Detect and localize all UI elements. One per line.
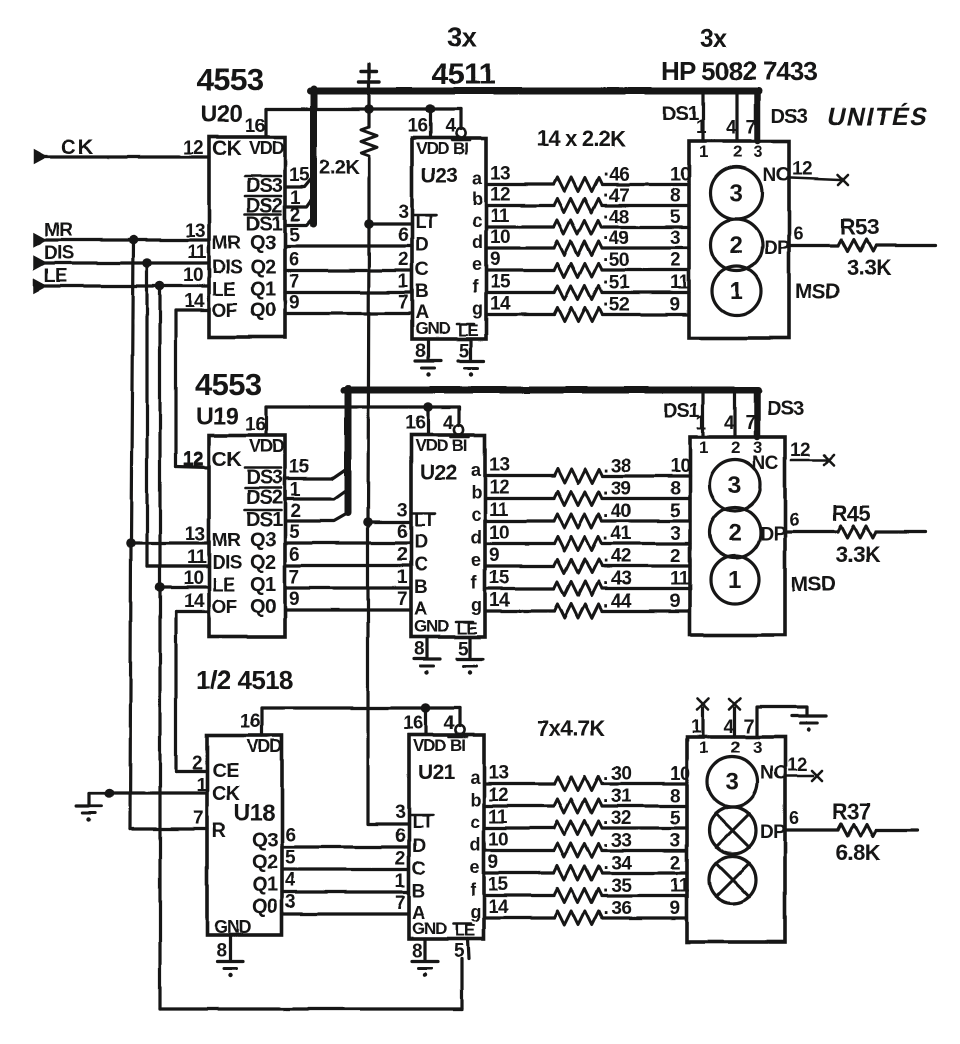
svg-text:9: 9 <box>488 852 498 873</box>
svg-text:U18: U18 <box>234 799 275 825</box>
svg-text:14: 14 <box>184 591 205 612</box>
svg-text:2: 2 <box>731 438 740 457</box>
svg-text:Q1: Q1 <box>250 574 276 596</box>
svg-text:6: 6 <box>793 224 803 244</box>
svg-text:c: c <box>470 812 480 832</box>
svg-text:g: g <box>470 902 480 922</box>
svg-text:4: 4 <box>443 413 454 434</box>
svg-text:13: 13 <box>489 455 509 476</box>
svg-text:10: 10 <box>488 830 508 851</box>
svg-text:5: 5 <box>670 501 681 522</box>
svg-text:15: 15 <box>489 568 510 589</box>
svg-text:g: g <box>471 595 481 615</box>
svg-text:16: 16 <box>245 414 265 435</box>
svg-text:1: 1 <box>395 871 406 892</box>
svg-text:7: 7 <box>746 117 756 138</box>
svg-text:R53: R53 <box>840 215 879 240</box>
svg-text:Q1: Q1 <box>252 874 278 896</box>
svg-text:5: 5 <box>285 848 296 869</box>
svg-text:6: 6 <box>397 522 407 543</box>
svg-text:11: 11 <box>187 242 207 263</box>
svg-text:e: e <box>471 550 481 570</box>
svg-text:16: 16 <box>405 413 425 434</box>
svg-text:10: 10 <box>183 265 203 286</box>
svg-text:HP 5082 7433: HP 5082 7433 <box>661 56 818 86</box>
svg-text:5: 5 <box>670 207 681 228</box>
svg-text:3: 3 <box>754 142 763 161</box>
svg-text:5: 5 <box>289 522 300 543</box>
svg-text:2.2K: 2.2K <box>319 157 360 179</box>
svg-text:9: 9 <box>670 898 680 919</box>
svg-text:3: 3 <box>728 472 741 499</box>
svg-text:GND: GND <box>214 917 252 937</box>
svg-text:Q3: Q3 <box>252 829 278 851</box>
svg-text:NC: NC <box>763 165 790 186</box>
svg-text:4: 4 <box>726 117 737 138</box>
svg-text:8: 8 <box>216 941 226 962</box>
svg-text:LE: LE <box>212 575 235 596</box>
svg-text:Q0: Q0 <box>250 300 276 322</box>
svg-text:7: 7 <box>398 293 408 314</box>
svg-text:D: D <box>414 532 427 553</box>
svg-text:2: 2 <box>670 546 680 567</box>
svg-text:6.8K: 6.8K <box>836 840 881 865</box>
svg-text:14 x 2.2K: 14 x 2.2K <box>537 126 626 151</box>
svg-text:f: f <box>471 573 478 593</box>
svg-text:7: 7 <box>744 717 754 738</box>
svg-text:1: 1 <box>397 567 408 588</box>
svg-text:Q3: Q3 <box>250 232 276 254</box>
svg-text:10: 10 <box>670 165 690 186</box>
svg-text:1: 1 <box>730 278 743 305</box>
svg-text:3.3K: 3.3K <box>836 542 881 567</box>
svg-text:3: 3 <box>753 738 762 757</box>
svg-text:·49: ·49 <box>603 228 629 249</box>
svg-text:2: 2 <box>290 501 300 522</box>
svg-text:NC: NC <box>752 453 779 474</box>
svg-text:13: 13 <box>490 164 510 185</box>
svg-text:1: 1 <box>696 413 707 434</box>
svg-text:4: 4 <box>724 717 735 738</box>
svg-text:4511: 4511 <box>432 58 495 91</box>
svg-text:6: 6 <box>398 225 408 246</box>
svg-text:. 38: . 38 <box>603 456 631 477</box>
svg-text:9: 9 <box>490 249 500 270</box>
svg-text:2: 2 <box>731 738 740 757</box>
svg-text:5: 5 <box>670 808 681 829</box>
svg-text:15: 15 <box>488 875 509 896</box>
svg-text:10: 10 <box>489 523 509 544</box>
svg-text:MR: MR <box>212 530 241 551</box>
svg-text:a: a <box>470 768 481 788</box>
svg-text:D: D <box>412 836 425 857</box>
svg-text:. 42: . 42 <box>603 546 631 567</box>
svg-text:11: 11 <box>670 569 690 590</box>
svg-text:4: 4 <box>285 870 296 891</box>
svg-text:LE: LE <box>44 266 67 287</box>
svg-text:. 41: . 41 <box>603 524 632 545</box>
svg-text:6: 6 <box>285 825 295 846</box>
svg-text:1: 1 <box>696 117 707 138</box>
svg-text:12: 12 <box>490 185 510 206</box>
svg-text:CE: CE <box>212 760 239 782</box>
svg-text:BI: BI <box>450 736 465 755</box>
svg-text:Q2: Q2 <box>252 852 278 874</box>
svg-text:11: 11 <box>670 273 690 294</box>
svg-text:9: 9 <box>670 591 680 612</box>
svg-text:CK: CK <box>212 448 242 471</box>
svg-text:3: 3 <box>398 202 408 223</box>
svg-text:U22: U22 <box>420 461 457 484</box>
svg-text:12: 12 <box>790 440 810 461</box>
svg-text:2: 2 <box>733 142 742 161</box>
svg-text:Q0: Q0 <box>252 896 278 918</box>
svg-text:DP: DP <box>760 822 786 843</box>
svg-text:2: 2 <box>730 232 743 259</box>
svg-text:4553: 4553 <box>197 62 264 97</box>
svg-text:VDD: VDD <box>249 436 285 456</box>
svg-text:Q3: Q3 <box>250 529 276 551</box>
svg-text:4: 4 <box>445 116 456 137</box>
svg-text:B: B <box>414 577 427 598</box>
svg-text:2: 2 <box>398 250 408 271</box>
svg-text:7: 7 <box>193 808 203 829</box>
svg-text:7x4.7K: 7x4.7K <box>537 716 605 741</box>
svg-text:7: 7 <box>397 589 407 610</box>
svg-text:b: b <box>471 483 482 503</box>
svg-text:5: 5 <box>289 225 300 246</box>
svg-text:c: c <box>472 211 482 231</box>
svg-text:8: 8 <box>670 479 680 500</box>
svg-text:DP: DP <box>764 238 790 259</box>
svg-text:DS3: DS3 <box>771 106 808 128</box>
svg-text:16: 16 <box>407 116 427 137</box>
svg-text:5: 5 <box>458 639 469 660</box>
svg-text:GND: GND <box>412 919 447 938</box>
svg-text:2: 2 <box>395 849 405 870</box>
svg-text:10: 10 <box>183 568 203 589</box>
svg-text:OF: OF <box>212 301 237 322</box>
svg-text:DS3: DS3 <box>246 467 283 489</box>
svg-text:4: 4 <box>724 413 735 434</box>
svg-text:DS1: DS1 <box>662 103 699 125</box>
svg-text:11: 11 <box>187 547 207 568</box>
svg-text:3.3K: 3.3K <box>847 256 892 281</box>
svg-text:1: 1 <box>699 438 708 457</box>
svg-text:·47: ·47 <box>603 186 629 207</box>
svg-text:11: 11 <box>489 500 509 521</box>
svg-text:BI: BI <box>453 139 468 158</box>
svg-text:8: 8 <box>415 341 425 362</box>
svg-text:. 31: . 31 <box>603 786 632 807</box>
svg-text:B: B <box>415 282 428 303</box>
svg-text:·50: ·50 <box>603 250 629 271</box>
svg-text:1: 1 <box>691 717 702 738</box>
svg-text:3: 3 <box>670 831 680 852</box>
svg-text:a: a <box>471 460 482 480</box>
svg-text:7: 7 <box>289 567 299 588</box>
svg-text:DS1: DS1 <box>663 400 700 422</box>
svg-text:a: a <box>472 169 483 189</box>
svg-text:. 32: . 32 <box>603 808 631 829</box>
svg-text:NC: NC <box>760 763 787 784</box>
svg-text:. 35: . 35 <box>603 876 632 897</box>
svg-text:12: 12 <box>488 785 508 806</box>
svg-text:f: f <box>472 277 479 297</box>
svg-text:. 34: . 34 <box>603 853 632 874</box>
svg-text:. 33: . 33 <box>603 831 631 852</box>
svg-text:8: 8 <box>670 786 680 807</box>
svg-text:e: e <box>470 857 480 877</box>
svg-text:4553: 4553 <box>195 367 262 402</box>
svg-text:3x: 3x <box>700 25 727 53</box>
svg-text:Q0: Q0 <box>250 596 276 618</box>
svg-text:VDD: VDD <box>415 436 448 455</box>
svg-text:DS2: DS2 <box>246 487 283 509</box>
svg-text:15: 15 <box>289 457 310 478</box>
svg-text:LE: LE <box>212 280 235 301</box>
svg-text:. 40: . 40 <box>603 501 631 522</box>
svg-text:. 30: . 30 <box>603 764 631 785</box>
svg-text:9: 9 <box>289 293 299 314</box>
svg-text:7: 7 <box>395 893 405 914</box>
svg-text:C: C <box>412 859 426 880</box>
svg-text:C: C <box>415 260 429 281</box>
svg-text:f: f <box>470 880 477 900</box>
svg-text:DIS: DIS <box>44 243 74 264</box>
svg-text:12: 12 <box>792 159 812 180</box>
svg-text:8: 8 <box>412 941 422 962</box>
svg-text:VDD: VDD <box>247 736 283 756</box>
svg-text:DS1: DS1 <box>246 509 283 531</box>
svg-text:4: 4 <box>444 713 455 734</box>
svg-text:DIS: DIS <box>212 258 242 279</box>
svg-text:9: 9 <box>489 545 499 566</box>
svg-text:MR: MR <box>212 233 241 254</box>
svg-text:15: 15 <box>490 272 511 293</box>
svg-text:13: 13 <box>185 221 205 242</box>
svg-text:d: d <box>472 232 482 252</box>
svg-text:Q1: Q1 <box>250 279 276 301</box>
svg-text:MR: MR <box>44 220 73 241</box>
svg-text:DS3: DS3 <box>767 398 804 420</box>
svg-text:U23: U23 <box>421 164 458 187</box>
svg-text:2: 2 <box>670 853 680 874</box>
svg-text:5: 5 <box>459 341 470 362</box>
svg-text:3: 3 <box>395 802 405 823</box>
svg-text:VDD: VDD <box>249 138 285 158</box>
svg-text:B: B <box>412 881 425 902</box>
svg-text:3: 3 <box>726 769 739 796</box>
svg-text:2: 2 <box>192 753 202 774</box>
svg-text:6: 6 <box>789 808 799 828</box>
svg-text:3: 3 <box>397 501 407 522</box>
svg-text:R45: R45 <box>832 501 871 526</box>
svg-text:7: 7 <box>289 272 299 293</box>
svg-text:GND: GND <box>414 617 449 636</box>
svg-text:6: 6 <box>289 545 299 566</box>
svg-text:3: 3 <box>670 524 680 545</box>
svg-text:7: 7 <box>745 413 755 434</box>
svg-text:b: b <box>472 190 483 210</box>
svg-text:MSD: MSD <box>791 573 836 596</box>
svg-text:8: 8 <box>414 639 424 660</box>
svg-text:d: d <box>470 835 480 855</box>
svg-text:UNITÉS: UNITÉS <box>825 102 932 131</box>
svg-text:1/2 4518: 1/2 4518 <box>196 665 293 695</box>
svg-text:5: 5 <box>454 941 465 962</box>
svg-text:e: e <box>472 254 482 274</box>
svg-text:. 44: . 44 <box>603 591 632 612</box>
svg-text:1: 1 <box>699 738 708 757</box>
svg-text:12: 12 <box>489 478 509 499</box>
svg-text:6: 6 <box>395 826 405 847</box>
svg-text:BI: BI <box>452 436 467 455</box>
svg-text:3: 3 <box>730 180 743 207</box>
svg-text:9: 9 <box>289 589 299 610</box>
svg-text:d: d <box>471 528 481 548</box>
svg-text:. 39: . 39 <box>603 479 631 500</box>
svg-text:1: 1 <box>699 142 708 161</box>
svg-text:14: 14 <box>489 590 510 611</box>
svg-text:c: c <box>471 505 481 525</box>
svg-text:14: 14 <box>490 294 511 315</box>
svg-text:MSD: MSD <box>795 280 840 303</box>
svg-text:VDD: VDD <box>413 736 446 755</box>
svg-text:VDD: VDD <box>416 139 449 158</box>
svg-text:U21: U21 <box>418 761 456 784</box>
svg-text:g: g <box>472 299 482 319</box>
svg-text:12: 12 <box>183 450 203 471</box>
svg-text:R: R <box>212 820 227 842</box>
svg-text:·51: ·51 <box>603 273 630 294</box>
svg-text:·46: ·46 <box>603 165 629 186</box>
svg-text:16: 16 <box>240 711 260 732</box>
svg-text:3: 3 <box>670 228 680 249</box>
svg-text:13: 13 <box>185 524 205 545</box>
svg-text:3: 3 <box>285 892 295 913</box>
svg-text:CK: CK <box>61 136 95 159</box>
svg-text:2: 2 <box>397 545 407 566</box>
svg-text:6: 6 <box>289 250 299 271</box>
svg-text:DS3: DS3 <box>246 175 283 197</box>
svg-text:8: 8 <box>670 186 680 207</box>
svg-text:OF: OF <box>212 597 237 618</box>
svg-text:2: 2 <box>728 520 741 547</box>
svg-text:3x: 3x <box>447 22 476 52</box>
svg-text:11: 11 <box>488 807 508 828</box>
svg-text:11: 11 <box>490 206 510 227</box>
svg-text:10: 10 <box>490 227 510 248</box>
svg-text:Q2: Q2 <box>250 257 276 279</box>
svg-text:2: 2 <box>670 250 680 271</box>
svg-text:GND: GND <box>415 319 450 338</box>
svg-text:14: 14 <box>488 897 509 918</box>
svg-text:9: 9 <box>670 295 680 316</box>
svg-text:·48: ·48 <box>603 207 629 228</box>
svg-text:6: 6 <box>789 510 799 530</box>
svg-text:. 36: . 36 <box>603 898 631 919</box>
svg-text:D: D <box>415 235 428 256</box>
svg-text:Q2: Q2 <box>250 552 276 574</box>
svg-text:13: 13 <box>488 763 508 784</box>
svg-text:1: 1 <box>398 272 409 293</box>
svg-text:·52: ·52 <box>603 295 629 316</box>
svg-text:10: 10 <box>670 456 690 477</box>
svg-text:1: 1 <box>728 567 741 594</box>
svg-text:DP: DP <box>760 524 786 545</box>
svg-text:U20: U20 <box>200 101 242 128</box>
svg-text:16: 16 <box>403 713 423 734</box>
svg-text:12: 12 <box>787 755 807 776</box>
svg-text:b: b <box>470 790 481 810</box>
svg-text:. 43: . 43 <box>603 569 631 590</box>
svg-text:R37: R37 <box>832 799 871 824</box>
svg-text:U19: U19 <box>196 403 238 430</box>
svg-text:DIS: DIS <box>212 553 242 574</box>
svg-text:CK: CK <box>212 137 242 160</box>
svg-text:16: 16 <box>245 116 265 137</box>
svg-text:C: C <box>414 555 428 576</box>
